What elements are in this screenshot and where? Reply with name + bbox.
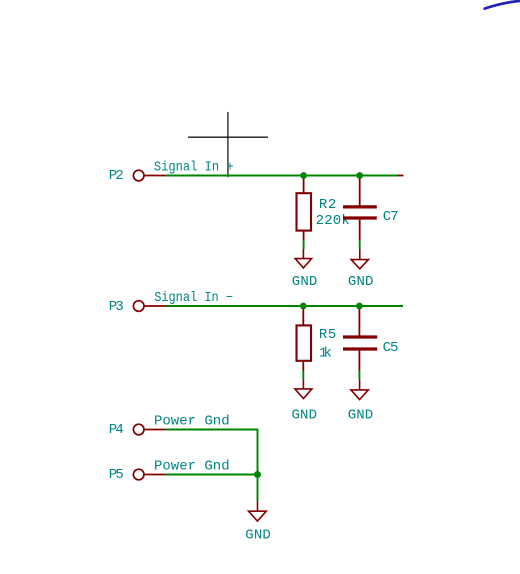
junction row1 at R2	[300, 172, 307, 179]
capacitor C7	[343, 176, 377, 241]
wire vertical drop	[257, 429, 259, 501]
svg-text:Power Gnd: Power Gnd	[154, 413, 230, 429]
svg-text:P2: P2	[109, 168, 124, 184]
connector P5	[133, 469, 165, 480]
wire P5 horizontal	[166, 474, 258, 476]
ground bottom	[249, 501, 267, 521]
ground under C5	[351, 380, 368, 400]
svg-text:P3: P3	[109, 299, 124, 315]
svg-text:P5: P5	[109, 467, 124, 483]
resistor R2	[297, 176, 312, 241]
svg-text:GND: GND	[348, 408, 374, 424]
ground under C7	[351, 249, 368, 269]
svg-text:GND: GND	[292, 274, 318, 290]
wire stub row1 right end	[397, 175, 404, 177]
ground under R5	[295, 380, 312, 399]
svg-text:Power Gnd: Power Gnd	[154, 458, 230, 474]
svg-text:GND: GND	[292, 408, 318, 424]
wire row1	[166, 175, 398, 177]
wire row2	[166, 305, 404, 307]
svg-text:R2: R2	[319, 197, 336, 213]
svg-text:Signal In −: Signal In −	[154, 290, 233, 306]
wire C5 to gnd	[358, 371, 360, 380]
junction P5/P4	[254, 471, 261, 478]
connector P2	[133, 170, 165, 181]
bus arc (blue curve, top right)	[485, 1, 520, 9]
svg-text:GND: GND	[348, 274, 374, 290]
svg-text:Signal In +: Signal In +	[154, 159, 234, 175]
svg-text:220k: 220k	[316, 213, 350, 229]
junction row1 at C7	[356, 172, 363, 179]
wire R5 to gnd	[302, 371, 304, 380]
connector P3	[133, 301, 165, 312]
svg-text:C7: C7	[383, 209, 399, 225]
svg-text:1k: 1k	[319, 346, 332, 362]
ground under R2	[295, 249, 311, 268]
svg-text:GND: GND	[245, 528, 270, 544]
wire R2 to gnd	[303, 240, 305, 249]
wire P4 horizontal	[166, 429, 258, 431]
wire C7 to gnd	[359, 240, 361, 249]
svg-text:P4: P4	[109, 422, 124, 438]
junction row2 at R5	[300, 303, 307, 310]
resistor R5	[297, 306, 312, 371]
capacitor C5	[343, 306, 377, 371]
svg-text:C5: C5	[383, 340, 399, 356]
connector P4	[133, 424, 165, 435]
svg-text:R5: R5	[319, 327, 336, 343]
cursor crosshair	[188, 112, 268, 177]
junction row2 at C5	[356, 303, 363, 310]
